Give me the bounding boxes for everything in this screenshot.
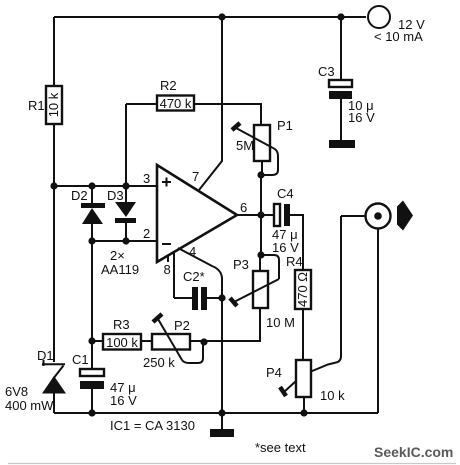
svg-text:470 Ω: 470 Ω (295, 272, 310, 307)
wire R2 right to P1 top (195, 104, 261, 124)
P2 wiper arrow (153, 314, 162, 322)
wire R2 branch left vertical (125, 104, 127, 186)
wire top supply rail (54, 16, 366, 18)
output jack center pin (374, 212, 382, 220)
output arrow (397, 201, 413, 231)
svg-text:6V8: 6V8 (5, 384, 28, 399)
P1 wiper arrow (232, 123, 240, 130)
wire output node down to P3 (260, 215, 262, 255)
svg-text:400 mW: 400 mW (5, 398, 54, 413)
svg-text:R2: R2 (160, 78, 177, 93)
svg-text:P4: P4 (266, 365, 282, 380)
P4 wiper wire to output (311, 216, 341, 372)
svg-text:*see text: *see text (255, 440, 306, 455)
wire pin7 vertical (199, 17, 222, 190)
svg-text:AA119: AA119 (101, 262, 139, 277)
wire bottom ground rail (54, 412, 378, 414)
op-amp plus (162, 181, 171, 183)
svg-text:C4: C4 (277, 186, 294, 201)
node ground rail / C2 wire (218, 409, 225, 416)
svg-text:P1: P1 (277, 118, 293, 133)
ground (main) (221, 413, 223, 429)
wire C2 ground vertical (221, 277, 223, 413)
op-amp U1 triangle (157, 165, 237, 262)
node C2 / ground wire (218, 294, 225, 301)
node R3 left on C1 wire (88, 337, 95, 344)
wire C4 right to R4 (290, 215, 303, 269)
wire P4 bottom (303, 398, 305, 413)
svg-text:2: 2 (143, 226, 150, 241)
op-amp minus (162, 243, 171, 245)
node D3 top (122, 182, 129, 189)
pin 4 wire (178, 248, 222, 279)
wire P1 node down to output node (260, 175, 262, 215)
wire P2 right row (191, 340, 260, 342)
svg-text:P2: P2 (174, 318, 190, 333)
wire P1 bottom (261, 162, 263, 175)
node P2 wiper junction (200, 338, 207, 345)
wire left rail top (53, 17, 55, 85)
svg-text:10 M: 10 M (266, 315, 295, 330)
scan artifact line (8, 463, 456, 465)
ground (C3) (329, 140, 355, 148)
svg-text:470 k: 470 k (160, 96, 192, 111)
wire C1 branch (91, 241, 93, 370)
svg-text:R1: R1 (28, 98, 45, 113)
svg-text:250 k: 250 k (143, 355, 175, 370)
svg-text:16 V: 16 V (348, 110, 375, 125)
node D2 top (88, 182, 95, 189)
svg-text:8: 8 (164, 262, 171, 277)
svg-text:D2: D2 (71, 188, 88, 203)
svg-text:2×: 2× (110, 248, 125, 263)
wire R4 bottom to P4 (302, 310, 304, 359)
svg-text:6: 6 (240, 200, 247, 215)
wire C3 to ground (340, 99, 342, 140)
svg-text:C2*: C2* (183, 269, 205, 284)
svg-text:4: 4 (189, 244, 196, 259)
svg-text:7: 7 (192, 169, 199, 184)
wire left rail middle (53, 125, 55, 362)
svg-text:R3: R3 (113, 317, 130, 332)
supply terminal circle 12V (368, 6, 390, 28)
node output junction (257, 211, 264, 218)
node junction top rail / C3 branch (337, 13, 344, 20)
node D2 bottom (88, 237, 95, 244)
wire inverting input row (92, 240, 157, 242)
svg-text:P3: P3 (233, 257, 249, 272)
svg-text:3: 3 (143, 171, 150, 186)
svg-text:< 10 mA: < 10 mA (374, 29, 423, 44)
output jack circle (366, 204, 391, 229)
node P4 bottom (300, 409, 307, 416)
svg-text:5M: 5M (236, 138, 254, 153)
node left rail / input row (50, 182, 57, 189)
svg-text:D1: D1 (37, 348, 54, 363)
svg-text:16 V: 16 V (110, 393, 137, 408)
wire to output jack (341, 215, 365, 217)
svg-text:100 k: 100 k (106, 335, 138, 350)
svg-text:10 k: 10 k (46, 92, 61, 117)
svg-text:10 k: 10 k (320, 388, 345, 403)
wire non-inverting input row (54, 185, 157, 187)
svg-text:R4: R4 (286, 254, 303, 269)
wire P3 bottom to P2 row (204, 309, 260, 341)
node C1 bottom (88, 409, 95, 416)
node D3 bottom (122, 237, 129, 244)
svg-text:C3: C3 (318, 64, 335, 79)
svg-text:IC1 = CA 3130: IC1 = CA 3130 (110, 418, 195, 433)
svg-text:D3: D3 (107, 188, 124, 203)
pin 8 stub (167, 256, 169, 262)
svg-text:16 V: 16 V (272, 240, 299, 255)
svg-text:C1: C1 (72, 352, 89, 367)
wire jack down to ground rail (377, 228, 379, 413)
wire op-amp output pin 6 (237, 214, 274, 216)
wire C3 branch upper (340, 17, 342, 80)
node P1 bottom junction (257, 171, 264, 178)
svg-text:SeekIC.com: SeekIC.com (374, 444, 453, 460)
node junction top rail / pin7 branch (218, 13, 225, 20)
P3 wiper arrow (261, 255, 279, 279)
node P3 wiper junction (257, 251, 264, 258)
P4 adjust arrow (280, 387, 286, 396)
